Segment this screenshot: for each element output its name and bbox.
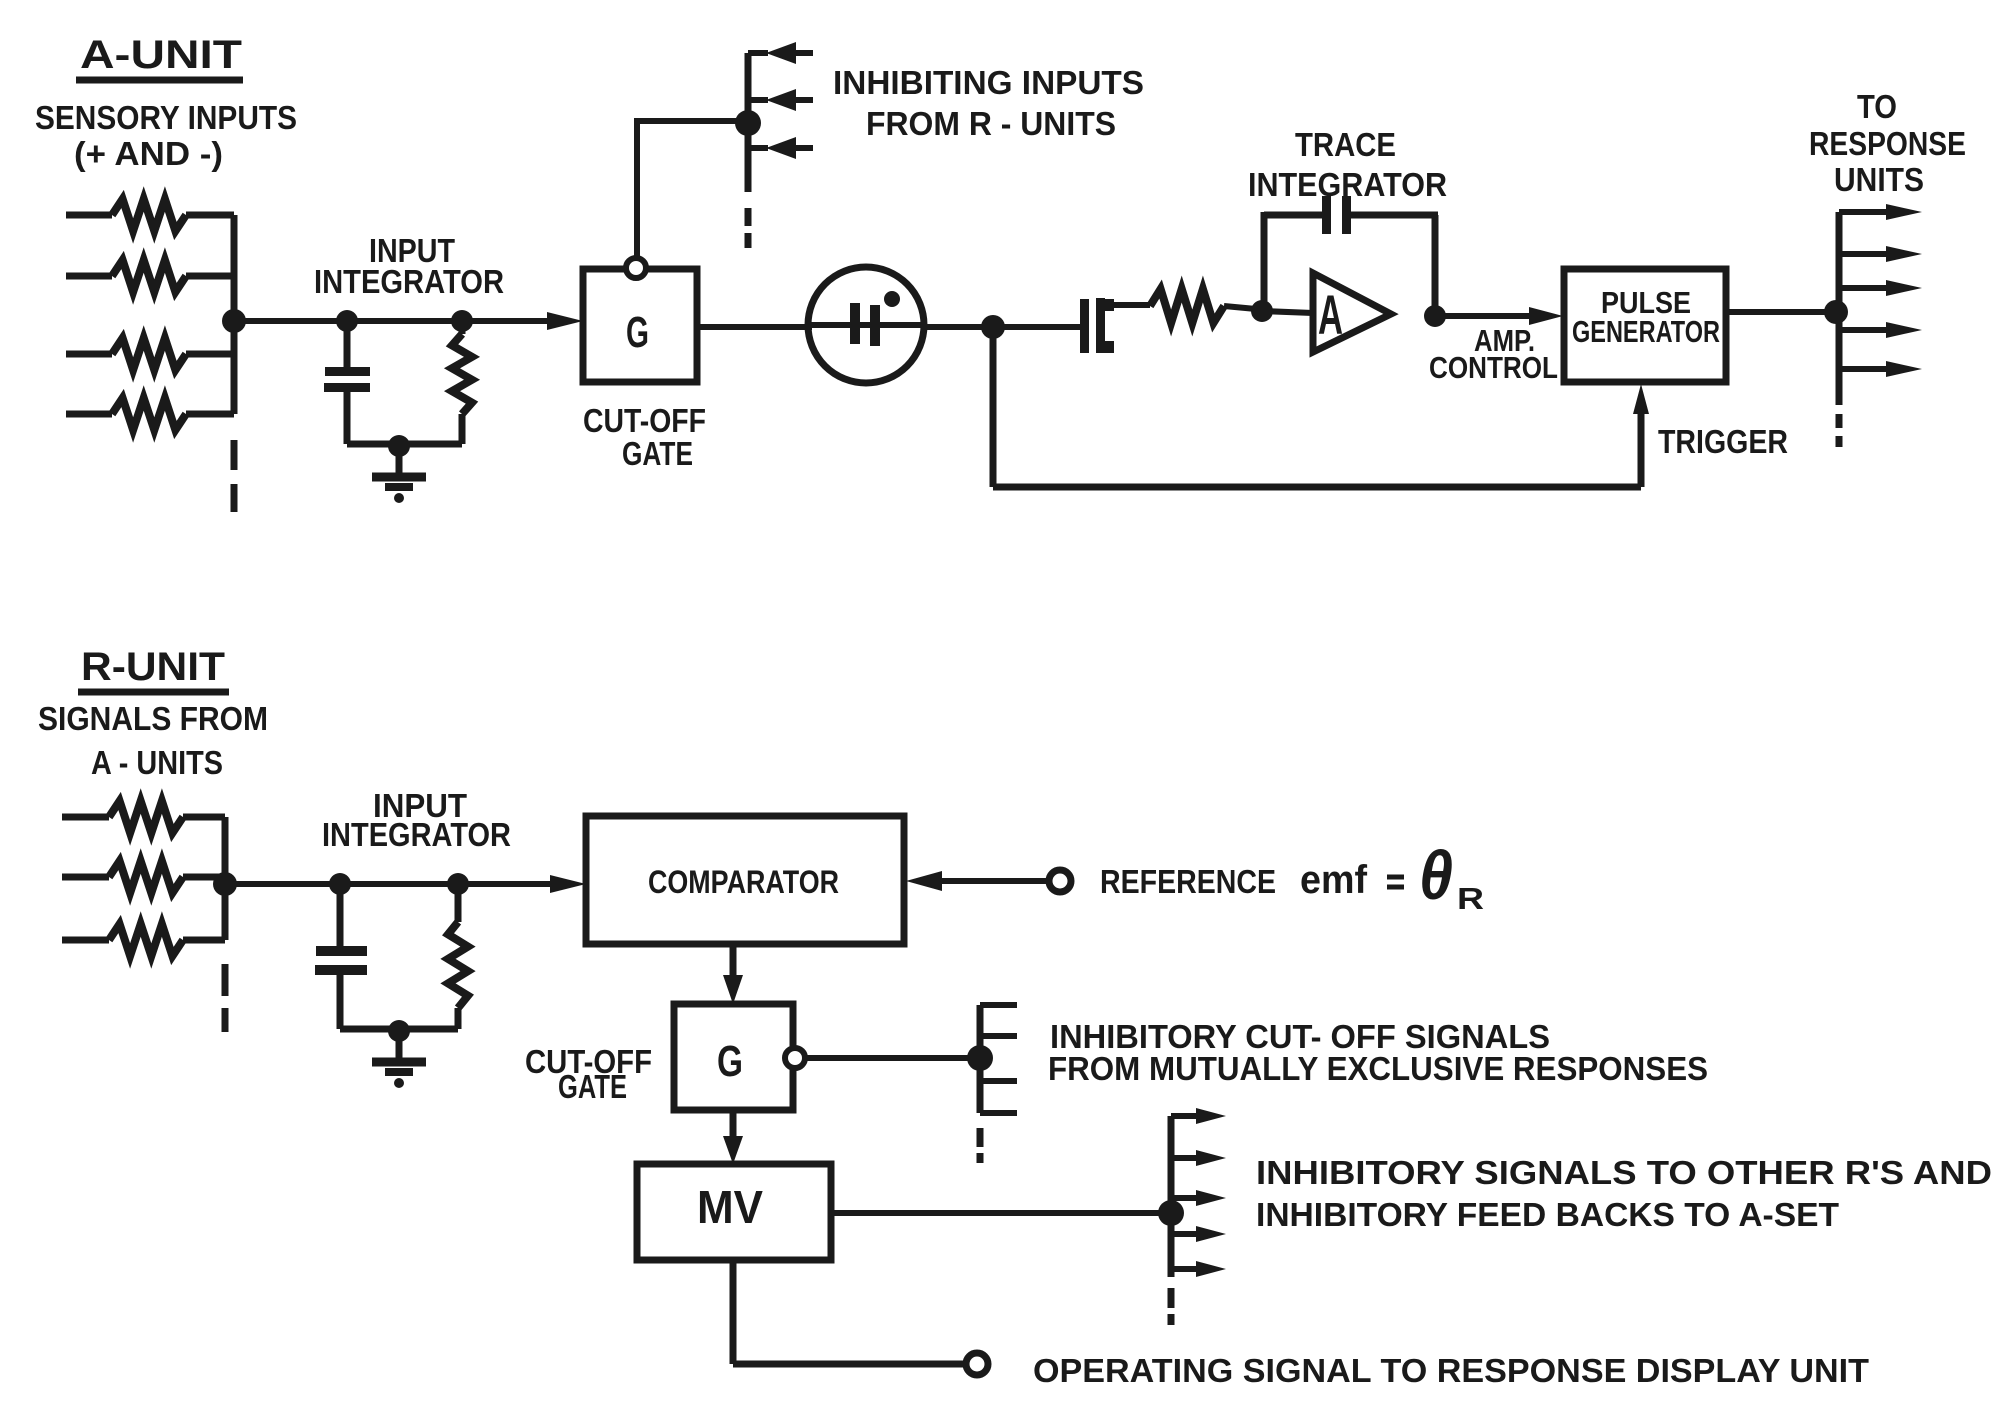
gate U2: R-unit cut-off gate box bbox=[674, 1004, 793, 1110]
arrow: inhibitory output arrow 4 bbox=[1171, 1231, 1198, 1237]
wire: R-unit gate output down bbox=[730, 1110, 737, 1140]
node: R-unit ground junction bbox=[388, 1020, 410, 1042]
arrow: trigger arrowhead into pulse generator bbox=[1633, 384, 1649, 414]
node: R-unit integrator resistor tap bbox=[447, 873, 469, 895]
node: A-unit integrator capacitor tap bbox=[336, 310, 358, 332]
ground: R-unit integrator ground bbox=[396, 1031, 403, 1058]
wire: amplifier output to pulse generator bbox=[1435, 313, 1532, 319]
svg-text:R-UNIT: R-UNIT bbox=[81, 645, 225, 689]
wire: trace integrator left riser bbox=[1261, 212, 1268, 311]
svg-text:INTEGRATOR: INTEGRATOR bbox=[314, 263, 504, 300]
wire: inhibitory cut-off stub 4 bbox=[980, 1110, 1017, 1116]
wire: storage output to coupling capacitor bbox=[924, 324, 1082, 330]
svg-text:(+ AND -): (+ AND -) bbox=[74, 135, 223, 172]
wire: trigger riser bbox=[1638, 408, 1645, 487]
resistor: R-unit integrator leak resistor bbox=[455, 884, 462, 922]
arrow: to-response-units arrow 2 bbox=[1839, 251, 1890, 257]
node: storage element output junction bbox=[981, 315, 1005, 339]
resistor: R-unit input resistor 1 bbox=[62, 814, 109, 821]
svg-text:TO: TO bbox=[1857, 88, 1897, 125]
wire: response output bus vertical bbox=[1836, 212, 1843, 405]
wire: MV operating signal run right bbox=[733, 1361, 966, 1368]
svg-text:CONTROL: CONTROL bbox=[1429, 350, 1558, 385]
wire: arrowhead into A-unit cut-off gate bbox=[547, 312, 583, 330]
wire: trace integrator top right wire bbox=[1351, 212, 1438, 219]
svg-text:GATE: GATE bbox=[558, 1068, 627, 1105]
wire: inhibitory cut-off bus vertical bbox=[977, 1005, 984, 1113]
node: amplifier output junction bbox=[1424, 305, 1446, 327]
svg-text:INHIBITORY FEED BACKS TO A-: INHIBITORY FEED BACKS TO A-SET bbox=[1256, 1196, 1839, 1233]
wire: comparator output down bbox=[730, 944, 737, 978]
arrow: inhibitory output arrow 2 bbox=[1171, 1155, 1198, 1161]
wire: inhibiting inputs bus dashed continuation bbox=[745, 208, 752, 226]
svg-text:A - UNITS: A - UNITS bbox=[91, 744, 223, 781]
wire: MV operating signal down bbox=[730, 1260, 737, 1364]
wire: A-unit integrator bottom wire bbox=[347, 441, 462, 448]
component: storage element circle (gas cell) bbox=[808, 267, 924, 383]
label: = sign bbox=[1387, 875, 1404, 880]
svg-text:INHIBITORY SIGNALS TO OTHER: INHIBITORY SIGNALS TO OTHER R'S AND bbox=[1256, 1154, 1992, 1191]
svg-text:SENSORY INPUTS: SENSORY INPUTS bbox=[35, 99, 297, 136]
wire: R-unit integrator bottom wire bbox=[340, 1026, 458, 1033]
node: inhibiting-input bus junction bbox=[735, 110, 761, 136]
wire: reference wire bbox=[940, 878, 1049, 884]
arrow: inhibitory output arrow 1 bbox=[1171, 1113, 1198, 1119]
arrow: inhibiting input arrow 2 bbox=[748, 97, 768, 103]
wire: MV output to inhibitory bus bbox=[831, 1210, 1160, 1216]
arrow: to-response-units arrow 1 bbox=[1839, 209, 1890, 215]
svg-text:RESPONSE: RESPONSE bbox=[1809, 125, 1966, 162]
svg-text:REFERENCE: REFERENCE bbox=[1100, 863, 1276, 900]
wire: trace integrator right riser bbox=[1432, 215, 1439, 316]
node: inhibitory signals bus junction bbox=[1158, 1200, 1184, 1226]
svg-text:θ: θ bbox=[1419, 837, 1453, 914]
wire: capacitor to series resistor bbox=[1112, 302, 1150, 308]
resistor: A-unit sensory input resistor 3 bbox=[66, 351, 112, 358]
wire: A-unit gate inhibit wire elbow bbox=[637, 121, 748, 258]
svg-text:CUT-OFF: CUT-OFF bbox=[583, 402, 706, 439]
svg-text:TRACE: TRACE bbox=[1295, 126, 1396, 163]
svg-text:A-UNIT: A-UNIT bbox=[80, 33, 242, 77]
wire: response output bus dashed continuation bbox=[1836, 414, 1843, 428]
arrow: to-response-units arrow 3 bbox=[1839, 285, 1890, 291]
svg-text:GATE: GATE bbox=[622, 435, 693, 472]
resistor: A-unit integrator leak resistor bbox=[459, 321, 466, 334]
terminal: reference emf terminal bbox=[1049, 870, 1071, 892]
wire: R-unit gate inhibit wire bbox=[805, 1055, 968, 1061]
resistor: R-unit input resistor 2 bbox=[62, 874, 109, 881]
wire: A-unit main wire bus to cut-off gate bbox=[234, 318, 552, 324]
wire: node to amplifier bbox=[1262, 311, 1313, 313]
terminal: operating signal terminal bbox=[966, 1353, 988, 1375]
node: R-unit integrator capacitor tap bbox=[329, 873, 351, 895]
block: PULSE GENERATOR box bbox=[1564, 269, 1726, 382]
arrow: inhibitory output arrow 3 bbox=[1171, 1195, 1198, 1201]
svg-text:emf: emf bbox=[1300, 858, 1368, 902]
ground: A-unit integrator ground bbox=[396, 446, 403, 473]
arrow: to-response-units arrow 4 bbox=[1839, 327, 1890, 333]
label: R-UNIT underline bbox=[78, 689, 229, 696]
wire: inhibitory cut-off stub 2 bbox=[980, 1033, 1017, 1039]
arrow: arrowhead into R-unit gate bbox=[723, 975, 743, 1004]
arrow: arrowhead into comparator bbox=[550, 875, 586, 893]
arrow: inhibiting input arrow 1 bbox=[748, 50, 768, 56]
svg-text:A: A bbox=[1318, 283, 1343, 346]
wire: trigger feedback bottom run bbox=[993, 484, 1641, 491]
capacitor: R-unit integrator capacitor bbox=[337, 884, 344, 946]
wire: inhibitory signals bus vertical bbox=[1168, 1116, 1175, 1277]
wire: trace integrator top left wire bbox=[1264, 212, 1324, 219]
resistor: A-unit sensory input resistor 4 bbox=[66, 411, 112, 418]
node: response output junction bbox=[1824, 300, 1848, 324]
arrow: arrowhead into pulse generator bbox=[1529, 307, 1563, 325]
wire: R-unit main wire to comparator bbox=[225, 881, 550, 887]
node: A-unit integrator resistor tap bbox=[451, 310, 473, 332]
wire: inhibitory cut-off bus dashed continuation bbox=[977, 1128, 984, 1147]
svg-text:UNITS: UNITS bbox=[1834, 161, 1924, 198]
svg-text:COMPARATOR: COMPARATOR bbox=[648, 864, 839, 900]
capacitor: trace integrator capacitor bbox=[1322, 196, 1331, 234]
node: A-unit input bus junction bbox=[222, 309, 246, 333]
block: MV multivibrator box bbox=[637, 1164, 831, 1260]
wire: inhibitory cut-off stub 3 bbox=[980, 1078, 1017, 1084]
resistor: series resistor into amplifier bbox=[1150, 289, 1224, 323]
wire: inhibitory cut-off stub 1 bbox=[980, 1002, 1017, 1008]
wire: gate output to storage element bbox=[697, 324, 812, 330]
svg-text:G: G bbox=[717, 1037, 743, 1086]
wire: trigger feedback down from storage node bbox=[990, 327, 997, 487]
arrow: arrowhead into MV bbox=[723, 1136, 743, 1164]
svg-text:G: G bbox=[626, 308, 649, 357]
node: R-unit input bus junction bbox=[213, 872, 237, 896]
arrow: reference arrowhead into comparator bbox=[906, 871, 942, 891]
svg-text:OPERATING SIGNAL TO RESPONS: OPERATING SIGNAL TO RESPONSE DISPLAY UNI… bbox=[1033, 1352, 1869, 1389]
wire: R-unit input bus dashed continuation bbox=[222, 964, 229, 996]
svg-text:TRIGGER: TRIGGER bbox=[1658, 423, 1788, 460]
node: A-unit ground junction bbox=[388, 435, 410, 457]
wire: A-unit input bus vertical bbox=[231, 215, 238, 414]
svg-text:R: R bbox=[1457, 881, 1484, 916]
svg-text:MV: MV bbox=[697, 1181, 763, 1233]
capacitor: coupling capacitor into trace integrator bbox=[1080, 299, 1089, 353]
node: amplifier input junction bbox=[1251, 300, 1273, 322]
wire: R-unit input bus vertical bbox=[222, 817, 229, 940]
capacitor: A-unit integrator capacitor bbox=[344, 321, 351, 367]
svg-text:INTEGRATOR: INTEGRATOR bbox=[322, 816, 511, 853]
resistor: A-unit sensory input resistor 1 bbox=[66, 212, 112, 219]
arrow: to-response-units arrow 5 bbox=[1839, 366, 1890, 372]
svg-text:INHIBITING INPUTS: INHIBITING INPUTS bbox=[833, 64, 1144, 101]
wire: resistor to amplifier input node bbox=[1224, 306, 1256, 309]
wire: pulse generator output bbox=[1725, 309, 1836, 315]
wire: inhibitory signals bus dashed continuation bbox=[1168, 1288, 1175, 1308]
arrow: inhibiting input arrow 3 bbox=[748, 145, 768, 151]
pin: A-unit gate inhibit input (inverting circle) bbox=[626, 258, 646, 278]
svg-text:FROM MUTUALLY EXCLUSIVE RES: FROM MUTUALLY EXCLUSIVE RESPONSES bbox=[1048, 1050, 1708, 1087]
resistor: R-unit input resistor 3 bbox=[62, 937, 109, 944]
block: COMPARATOR box bbox=[586, 816, 904, 944]
pin: R-unit gate inhibit pin (inverting circle) bbox=[785, 1048, 805, 1068]
arrow: inhibitory output arrow 5 bbox=[1171, 1266, 1198, 1272]
wire: inhibiting inputs bus vertical bbox=[745, 53, 752, 192]
op-amp A: trace amplifier triangle bbox=[1313, 273, 1391, 352]
resistor: A-unit sensory input resistor 2 bbox=[66, 273, 112, 280]
gate U1: A-unit cut-off gate box bbox=[583, 269, 697, 382]
svg-text:SIGNALS FROM: SIGNALS FROM bbox=[38, 700, 268, 737]
svg-text:GENERATOR: GENERATOR bbox=[1572, 314, 1720, 349]
wire: A-unit input bus dashed continuation bbox=[231, 440, 238, 470]
node: inhibitory cut-off bus junction bbox=[967, 1045, 993, 1071]
svg-text:FROM R - UNITS: FROM R - UNITS bbox=[866, 105, 1116, 142]
label: A-UNIT underline bbox=[76, 77, 243, 84]
